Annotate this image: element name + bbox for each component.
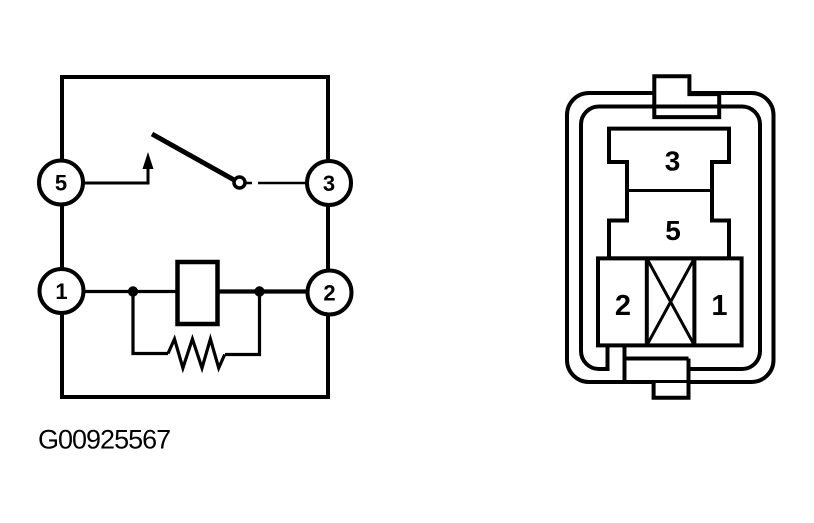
wire: switch contact to pin 3 (246, 182, 307, 185)
pin 1 terminal circle (40, 269, 84, 313)
svg-text:G00925567: G00925567 (38, 425, 170, 455)
svg-text:3: 3 (665, 146, 681, 177)
switch armature arrow (143, 152, 154, 169)
junction node left (128, 286, 138, 296)
relay internal schematic outline box (62, 77, 328, 397)
coil window X cross (647, 258, 695, 345)
pin 2 terminal circle (308, 271, 352, 315)
svg-text:2: 2 (323, 281, 335, 306)
switch contact (open circle) (234, 177, 245, 188)
connector bottom tab (656, 383, 687, 398)
svg-text:1: 1 (55, 279, 67, 304)
wire: right junction down to resistor (225, 296, 260, 355)
resistor R1 (zigzag) (168, 339, 225, 368)
wire: left junction down to resistor (133, 296, 168, 354)
svg-text:5: 5 (665, 215, 681, 246)
terminal 3 / 5 cavity (dog-bone outline) (609, 129, 729, 259)
svg-text:5: 5 (55, 171, 67, 196)
switch blade (152, 134, 236, 181)
divider left of coil window (645, 258, 649, 345)
pin 3 terminal circle (307, 161, 351, 205)
connector outer housing outline (567, 93, 774, 382)
svg-text:1: 1 (711, 290, 727, 322)
bottom keyway rectangle (627, 361, 687, 380)
relay coil K1 (178, 262, 218, 324)
junction node right (254, 286, 264, 296)
pin 5 terminal circle (39, 161, 83, 205)
connector top mounting tab (654, 76, 719, 117)
divider between cavity 3 and 5 (627, 189, 712, 192)
divider right of coil window (692, 258, 696, 345)
svg-text:2: 2 (615, 290, 631, 322)
wire: pin 5 to switch arrow (84, 167, 148, 183)
bottom keyway strip below terminal 2 (610, 346, 623, 379)
wire: coil to pin 2 (right) (218, 289, 308, 293)
svg-text:3: 3 (323, 171, 335, 196)
wire: pin 1 to coil (left) (84, 290, 177, 293)
connector inner housing outline (581, 107, 760, 370)
terminal row box (cavities 2, coil, 1) (598, 258, 742, 345)
